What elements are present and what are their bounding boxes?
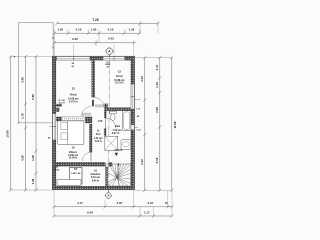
dim col L1 10.96 — [10, 57, 12, 190]
svg-text:4.43: 4.43 — [140, 76, 144, 82]
svg-text:4.39: 4.39 — [21, 155, 25, 161]
svg-text:6.46: 6.46 — [87, 210, 93, 214]
svg-text:1.76: 1.76 — [21, 113, 25, 119]
closet band room10 top — [56, 117, 62, 122]
stair walk line — [117, 163, 119, 186]
pillow 1 — [61, 123, 68, 130]
bath left wall lower — [104, 128, 106, 136]
svg-text:Eltern: Eltern — [69, 150, 77, 154]
svg-text:10.73 m: 10.73 m — [115, 83, 123, 85]
flur west wall — [89, 124, 92, 152]
svg-text:Bad: Bad — [115, 124, 120, 128]
svg-text:11.66: 11.66 — [173, 121, 177, 128]
svg-text:12: 12 — [72, 86, 76, 90]
window left (room 10) — [52, 114, 54, 141]
svg-text:14.75 m: 14.75 m — [69, 100, 78, 103]
svg-text:2.87: 2.87 — [117, 201, 123, 205]
svg-text:6.97 m: 6.97 m — [112, 132, 119, 135]
lower storey outline — [19, 23, 54, 123]
wc — [110, 111, 117, 114]
svg-text:2.16: 2.16 — [108, 28, 114, 32]
stair treads — [109, 164, 117, 177]
desk bottom strip — [57, 180, 81, 186]
svg-text:3.90: 3.90 — [21, 77, 25, 83]
radiator left wall — [56, 108, 59, 112]
svg-text:2.02: 2.02 — [72, 37, 78, 41]
svg-text:8.84 m: 8.84 m — [92, 179, 99, 182]
door room13 threshold — [95, 104, 104, 107]
svg-text:1.47: 1.47 — [155, 64, 159, 70]
dim col L3 — [35, 57, 37, 190]
svg-text:15.06 m: 15.06 m — [69, 158, 77, 160]
door room12 arc — [82, 107, 91, 116]
dim col R1 — [144, 58, 146, 191]
exterior wall bottom — [52, 186, 134, 190]
bottom extension verticals — [53, 190, 55, 216]
exterior wall right — [131, 56, 135, 84]
svg-text:1.44*1.44: 1.44*1.44 — [71, 172, 81, 175]
building outline — [52, 56, 134, 190]
svg-text:4.17: 4.17 — [77, 201, 83, 205]
svg-text:5.16: 5.16 — [155, 157, 159, 163]
svg-text:Kind: Kind — [116, 74, 123, 78]
dim row A 7.28 — [57, 23, 158, 25]
window top-left W1 — [57, 56, 91, 58]
door room13 arc — [94, 97, 104, 107]
section line A-A — [108, 55, 110, 193]
stair up arrow — [117, 163, 119, 166]
window top-right W2 — [103, 56, 125, 58]
bath left wall upper — [104, 109, 106, 118]
svg-text:2.97: 2.97 — [148, 201, 154, 205]
stair cheek wall — [106, 166, 108, 187]
svg-text:5.88: 5.88 — [31, 94, 35, 100]
small window right lower — [130, 125, 132, 130]
svg-text:LF04: LF04 — [54, 169, 60, 172]
door room10 arc — [82, 152, 91, 161]
svg-text:8.10 qm: 8.10 qm — [91, 176, 100, 179]
pillow 2 — [61, 133, 68, 140]
door room10 leaf — [90, 152, 92, 161]
svg-text:1.38: 1.38 — [31, 155, 35, 161]
dim row bottom 1 — [54, 206, 172, 208]
svg-text:1.10: 1.10 — [155, 82, 159, 88]
svg-text:10.88 qm: 10.88 qm — [114, 79, 124, 82]
svg-text:16.0 H: 16.0 H — [59, 102, 66, 104]
south strip wall — [52, 162, 105, 166]
svg-text:Flur: Flur — [96, 132, 101, 136]
section marker top — [108, 54, 110, 56]
shower — [105, 136, 118, 150]
bath corner post — [104, 104, 108, 110]
right extension lines — [135, 57, 172, 59]
svg-text:1.08: 1.08 — [31, 178, 35, 184]
dim col R2 — [159, 58, 161, 191]
dim row bottom 2 — [54, 215, 172, 217]
svg-text:+2,625: +2,625 — [114, 148, 123, 152]
skylight box DF — [70, 168, 83, 185]
door room13 leaf — [92, 100, 94, 107]
left extension lines — [10, 56, 52, 58]
svg-text:1.17: 1.17 — [144, 210, 150, 214]
svg-text:2.32: 2.32 — [140, 159, 144, 165]
svg-text:4.32 m: 4.32 m — [95, 140, 102, 143]
bed room10 — [58, 121, 84, 145]
bathtub — [122, 111, 130, 131]
svg-text:Kind: Kind — [70, 92, 77, 96]
stair outline — [106, 164, 131, 186]
dim row B — [55, 32, 140, 34]
wall divider rooms 12/13 — [92, 60, 95, 97]
dim col R3 total — [171, 58, 173, 191]
window right (room 13/bath) — [130, 84, 132, 109]
bath door leaf — [104, 118, 106, 128]
svg-text:2.43: 2.43 — [108, 36, 114, 40]
room12 south stub wall — [56, 104, 62, 107]
svg-text:7.28: 7.28 — [92, 18, 98, 22]
bath door arc — [105, 118, 115, 128]
svg-text:1.36: 1.36 — [129, 28, 135, 32]
svg-text:13: 13 — [118, 70, 122, 74]
exterior wall top — [52, 56, 56, 60]
exterior wall left — [52, 56, 56, 113]
svg-text:1.90: 1.90 — [91, 28, 97, 32]
svg-text:2.16: 2.16 — [76, 28, 82, 32]
svg-text:1.36: 1.36 — [57, 28, 63, 32]
svg-text:4.42 qm: 4.42 qm — [94, 137, 103, 140]
dim col L2 — [25, 57, 27, 190]
svg-text:10.96: 10.96 — [5, 130, 9, 138]
door room12 threshold — [82, 113, 92, 116]
bath top wall — [106, 108, 130, 111]
section marker bottom — [107, 190, 109, 193]
svg-text:DF: DF — [74, 168, 78, 171]
svg-text:2.98: 2.98 — [155, 107, 159, 113]
sink — [121, 140, 131, 150]
svg-text:1.5P: 1.5P — [97, 120, 102, 123]
dim row C — [55, 42, 135, 44]
